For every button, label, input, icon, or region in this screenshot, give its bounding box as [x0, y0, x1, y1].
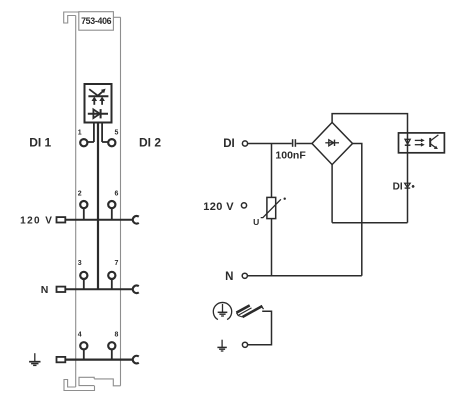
svg-text:DI: DI	[223, 138, 235, 150]
terminal square 120V	[57, 217, 66, 222]
svg-text:2: 2	[78, 191, 82, 198]
wire center bus	[97, 123, 99, 290]
wire row3 N rail	[65, 288, 132, 290]
svg-text:N: N	[225, 271, 233, 283]
terminal square N	[57, 287, 66, 292]
indicator diagonal in	[89, 89, 98, 96]
wire row2 120V rail	[65, 219, 132, 221]
capacitor C1 100nF	[292, 139, 294, 147]
module foot tongue	[79, 377, 94, 385]
wire pin6 stem	[111, 208, 113, 220]
wire right tab link	[113, 16, 120, 18]
svg-text:DI 2: DI 2	[139, 136, 161, 150]
wire pin2 stem	[83, 208, 85, 220]
wire varistor to N rail	[271, 219, 273, 276]
svg-text:1: 1	[78, 129, 82, 136]
wire pin4 stem	[83, 349, 85, 359]
svg-text:7: 7	[115, 260, 119, 267]
svg-text:DI 1: DI 1	[29, 136, 51, 150]
wire DI to cap	[248, 143, 292, 145]
wire pin8 stem	[111, 349, 113, 359]
svg-text:6: 6	[115, 191, 119, 198]
clamp row3	[133, 286, 139, 294]
module foot right step	[94, 379, 120, 386]
svg-text:U: U	[253, 217, 259, 227]
wire pin7 stem	[111, 279, 113, 289]
wire DI junction to varistor	[271, 144, 273, 198]
wire cap to bridge	[296, 143, 312, 145]
svg-text:N: N	[41, 284, 49, 296]
wire bridge bottom down	[331, 165, 333, 223]
svg-text:120 V: 120 V	[203, 201, 234, 213]
optocoupler U2 box	[399, 133, 445, 153]
bridge diode symbol	[325, 142, 339, 144]
wire N riser to bridge	[353, 144, 362, 276]
varistor star mark	[284, 198, 286, 200]
svg-text:3: 3	[78, 260, 82, 267]
svg-text:5: 5	[115, 129, 119, 136]
wire top tab hook	[64, 12, 79, 23]
svg-text:4: 4	[78, 332, 82, 339]
wire pin1 jog	[88, 141, 94, 143]
label box 753-406	[79, 12, 114, 31]
optocoupler phototransistor	[429, 138, 431, 147]
wire rail to earth terminal	[248, 311, 272, 345]
indicator diagonal arrow out	[97, 91, 103, 96]
terminal earth	[242, 342, 247, 347]
DI output star mark	[412, 185, 415, 188]
svg-text:DI: DI	[393, 182, 403, 193]
wire row4 earth rail	[65, 359, 132, 361]
clamp row2	[133, 216, 139, 224]
indicator symbol line	[88, 95, 108, 97]
svg-text:753-406: 753-406	[81, 16, 112, 26]
module foot left hook	[64, 380, 95, 391]
wire module right edge	[120, 17, 122, 386]
wire bottom rail	[332, 222, 407, 224]
wire module left edge	[75, 16, 77, 388]
svg-text:8: 8	[115, 332, 119, 339]
LED indicator box U1	[85, 84, 112, 123]
diode in LED box	[88, 113, 108, 115]
ground symbol schematic	[217, 340, 226, 351]
svg-text:120 V: 120 V	[20, 215, 53, 226]
optocoupler LED	[405, 139, 410, 144]
terminal N right	[242, 273, 247, 278]
varistor RV1	[267, 197, 276, 218]
bridge rectifier D1	[312, 122, 353, 164]
wire pin5 jog	[102, 141, 108, 143]
indicator up arrow right	[101, 100, 103, 105]
indicator up arrow left	[93, 100, 95, 105]
module body outline (WAGO 753-406 terminal block)	[64, 12, 121, 391]
ground symbol left	[29, 353, 40, 365]
wire stem pin1 to box	[93, 123, 95, 143]
DIN rail icon	[236, 305, 263, 317]
wire N rail	[247, 275, 361, 277]
optocoupler arrow 2	[415, 144, 421, 146]
wire stem pin5 to box	[101, 123, 103, 143]
terminal DI	[242, 141, 247, 146]
optocoupler arrow 1	[415, 139, 421, 141]
wire optocoupler return	[407, 133, 409, 223]
terminal 120V right	[241, 203, 246, 208]
protective earth symbol in circle	[213, 302, 231, 319]
wire pin3 stem	[83, 279, 85, 289]
svg-text:100nF: 100nF	[275, 149, 306, 161]
clamp row4	[133, 356, 139, 364]
wire bridge top to optocoupler	[332, 114, 407, 133]
DI output LED glyph	[405, 183, 411, 187]
terminal square earth	[57, 357, 66, 362]
